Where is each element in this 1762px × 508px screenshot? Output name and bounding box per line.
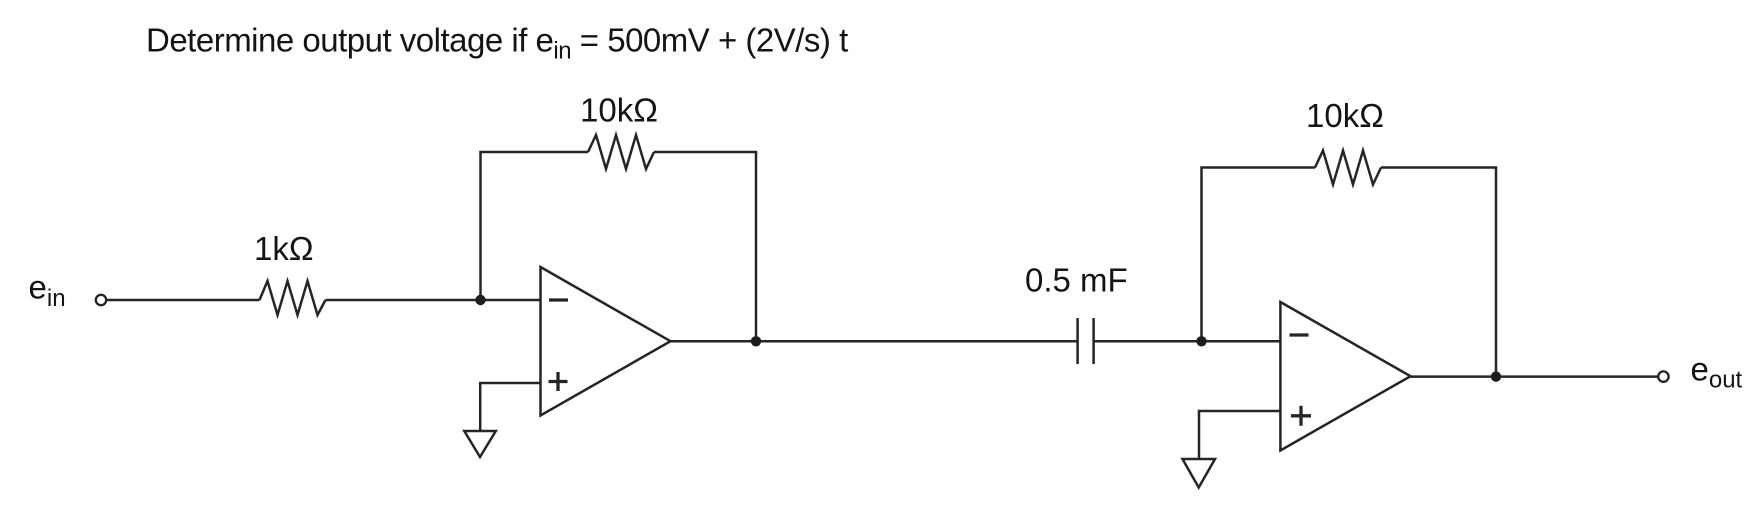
wire: U2 + input to ground [1199, 411, 1280, 459]
wire: node A up to feedback rail [479, 152, 482, 300]
svg-text:10kΩ: 10kΩ [580, 92, 658, 129]
node A junction dot [475, 295, 485, 305]
op-amp U1 [541, 267, 671, 416]
ground (U2 + input) [1183, 459, 1216, 488]
svg-text:1kΩ: 1kΩ [254, 230, 314, 267]
node: U2 output junction dot [1491, 371, 1501, 381]
wire: R1 to op-amp U1 inverting input [326, 299, 541, 302]
wire: U1 + input to ground [480, 383, 540, 431]
wire: C1 to op-amp U2 inverting input [1094, 340, 1281, 343]
node: U1 output junction dot [751, 336, 761, 346]
resistor R1 1k [260, 281, 326, 315]
U1 plus pin label [549, 372, 568, 391]
terminal e_in (open circle) [96, 295, 106, 305]
U2 plus pin label [1291, 406, 1311, 426]
wire: node B up to feedback rail 2 [1200, 168, 1203, 342]
resistor R2 10k (feedback of U1) [588, 135, 654, 169]
ground (U1 + input) [464, 431, 496, 457]
svg-text:Determine output voltage if ei: Determine output voltage if ein = 500mV … [146, 22, 848, 65]
wire: e_in terminal to R1 [107, 299, 260, 302]
wire: feedback rail 2 right segment [1381, 166, 1497, 169]
wire: feedback rail 2 left segment [1200, 166, 1315, 169]
wire: feedback rail right segment [654, 151, 757, 154]
svg-text:10kΩ: 10kΩ [1306, 97, 1384, 134]
wire: feedback rail 2 down to U2 output [1495, 168, 1498, 377]
svg-text:ein: ein [29, 269, 66, 313]
terminal e_out (open circle) [1658, 371, 1668, 381]
resistor R3 10k (feedback of U2) [1315, 151, 1381, 185]
wire: feedback rail down to U1 output [755, 152, 758, 341]
node B junction dot [1196, 336, 1206, 346]
wire: feedback rail left segment [479, 151, 588, 154]
svg-text:eout: eout [1691, 351, 1743, 394]
op-amp U2 [1280, 302, 1410, 451]
U2 minus pin label [1290, 333, 1309, 336]
U1 minus pin label [549, 298, 568, 301]
wire: U2 output to e_out terminal [1411, 375, 1659, 378]
svg-text:0.5 mF: 0.5 mF [1025, 261, 1128, 298]
capacitor C1 plates [1078, 318, 1094, 364]
wire: U1 output to capacitor C1 [671, 340, 1078, 343]
